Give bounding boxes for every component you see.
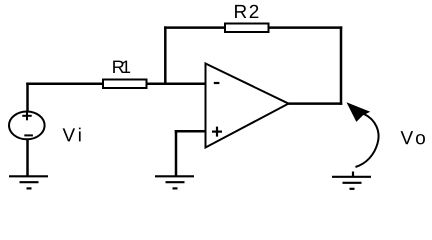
label R2 xyxy=(235,5,258,18)
wire vertical from input corner down to Vi source top xyxy=(26,82,29,112)
wire non-inverting input horizontal xyxy=(175,130,206,133)
wire from Vi source bottom to ground xyxy=(26,139,29,177)
Vo arrow head at output node xyxy=(348,103,370,121)
wire from R1 to op-amp inverting input xyxy=(147,82,207,85)
resistor R1 xyxy=(103,80,147,89)
wire input horizontal from Vi to R1 xyxy=(26,82,103,85)
ground under Vi xyxy=(9,176,48,188)
wire from R2 to feedback corner xyxy=(268,26,342,29)
ground under Vo arrow xyxy=(332,172,371,189)
wire top feedback horizontal to R2 xyxy=(164,26,225,29)
Vo arc arrow xyxy=(356,114,379,167)
wire non-inverting input vertical down to ground xyxy=(175,130,178,176)
resistor R2 xyxy=(225,24,269,33)
ground at non-inverting input xyxy=(155,176,194,188)
wire vertical from inverting input node up to feedback xyxy=(164,26,167,85)
voltage source Vi xyxy=(9,111,45,139)
label R1 xyxy=(113,61,130,73)
op-amp U1 xyxy=(206,64,289,148)
wire vertical feedback down to output node xyxy=(340,26,343,105)
wire op-amp output to node xyxy=(288,102,342,105)
op-amp non-inverting input plus sign xyxy=(212,127,222,137)
label Vo xyxy=(401,131,425,144)
op-amp inverting input minus sign xyxy=(214,82,220,84)
label Vi xyxy=(63,128,81,142)
